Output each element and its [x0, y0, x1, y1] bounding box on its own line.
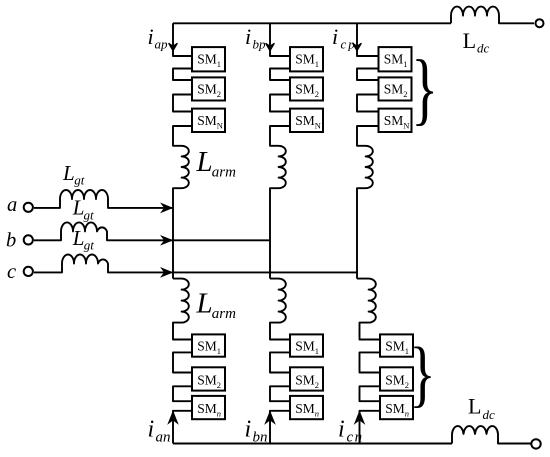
svg-text:a: a: [7, 194, 17, 216]
svg-text:SM: SM: [295, 373, 315, 388]
svg-text:bn: bn: [253, 430, 268, 446]
svg-text:dc: dc: [483, 407, 496, 422]
svg-text:L: L: [72, 226, 85, 250]
svg-text:1: 1: [315, 346, 319, 356]
svg-text:i: i: [332, 24, 338, 49]
svg-text:2: 2: [217, 380, 221, 390]
svg-text:cn: cn: [347, 430, 364, 446]
svg-text:N: N: [403, 120, 409, 130]
svg-text:an: an: [156, 430, 171, 446]
svg-text:c: c: [7, 261, 16, 283]
svg-text:n: n: [405, 409, 409, 419]
svg-text:}: }: [409, 334, 435, 416]
svg-text:SM: SM: [385, 373, 405, 388]
svg-text:arm: arm: [212, 164, 236, 180]
svg-text:bp: bp: [253, 37, 267, 52]
svg-text:N: N: [315, 120, 321, 130]
svg-text:n: n: [315, 409, 319, 419]
svg-text:2: 2: [403, 89, 407, 99]
svg-text:gt: gt: [84, 238, 95, 253]
svg-text:2: 2: [315, 380, 319, 390]
svg-text:SM: SM: [197, 373, 217, 388]
svg-text:i: i: [148, 417, 155, 443]
svg-text:i: i: [245, 417, 252, 443]
svg-text:SM: SM: [384, 113, 404, 128]
svg-text:SM: SM: [295, 52, 315, 67]
svg-text:L: L: [463, 28, 476, 53]
svg-text:L: L: [196, 146, 213, 178]
svg-text:SM: SM: [295, 339, 315, 354]
svg-text:}: }: [411, 43, 438, 132]
svg-text:1: 1: [403, 59, 407, 69]
svg-text:i: i: [245, 24, 251, 49]
svg-text:dc: dc: [477, 41, 490, 56]
svg-text:1: 1: [315, 59, 319, 69]
svg-text:2: 2: [217, 89, 221, 99]
svg-text:N: N: [217, 120, 223, 130]
svg-text:b: b: [6, 230, 16, 252]
svg-text:2: 2: [315, 89, 319, 99]
svg-text:1: 1: [217, 346, 221, 356]
svg-text:SM: SM: [295, 113, 315, 128]
svg-text:gt: gt: [84, 208, 95, 223]
svg-text:L: L: [468, 394, 481, 419]
svg-text:SM: SM: [385, 401, 405, 416]
svg-text:1: 1: [217, 59, 221, 69]
svg-text:SM: SM: [197, 113, 217, 128]
svg-text:cp: cp: [341, 37, 357, 52]
svg-text:n: n: [217, 409, 221, 419]
svg-text:1: 1: [405, 346, 409, 356]
svg-text:SM: SM: [385, 339, 405, 354]
svg-text:L: L: [62, 161, 75, 185]
svg-text:SM: SM: [197, 82, 217, 97]
svg-text:2: 2: [405, 380, 409, 390]
svg-text:i: i: [148, 24, 154, 49]
svg-text:gt: gt: [74, 173, 85, 188]
svg-text:SM: SM: [384, 82, 404, 97]
svg-text:SM: SM: [295, 401, 315, 416]
svg-text:SM: SM: [384, 52, 404, 67]
svg-text:SM: SM: [197, 52, 217, 67]
svg-text:i: i: [338, 417, 345, 443]
svg-text:SM: SM: [197, 339, 217, 354]
svg-text:SM: SM: [295, 82, 315, 97]
svg-text:ap: ap: [155, 37, 169, 52]
svg-text:SM: SM: [197, 401, 217, 416]
svg-text:L: L: [196, 287, 213, 319]
svg-text:arm: arm: [212, 306, 236, 322]
